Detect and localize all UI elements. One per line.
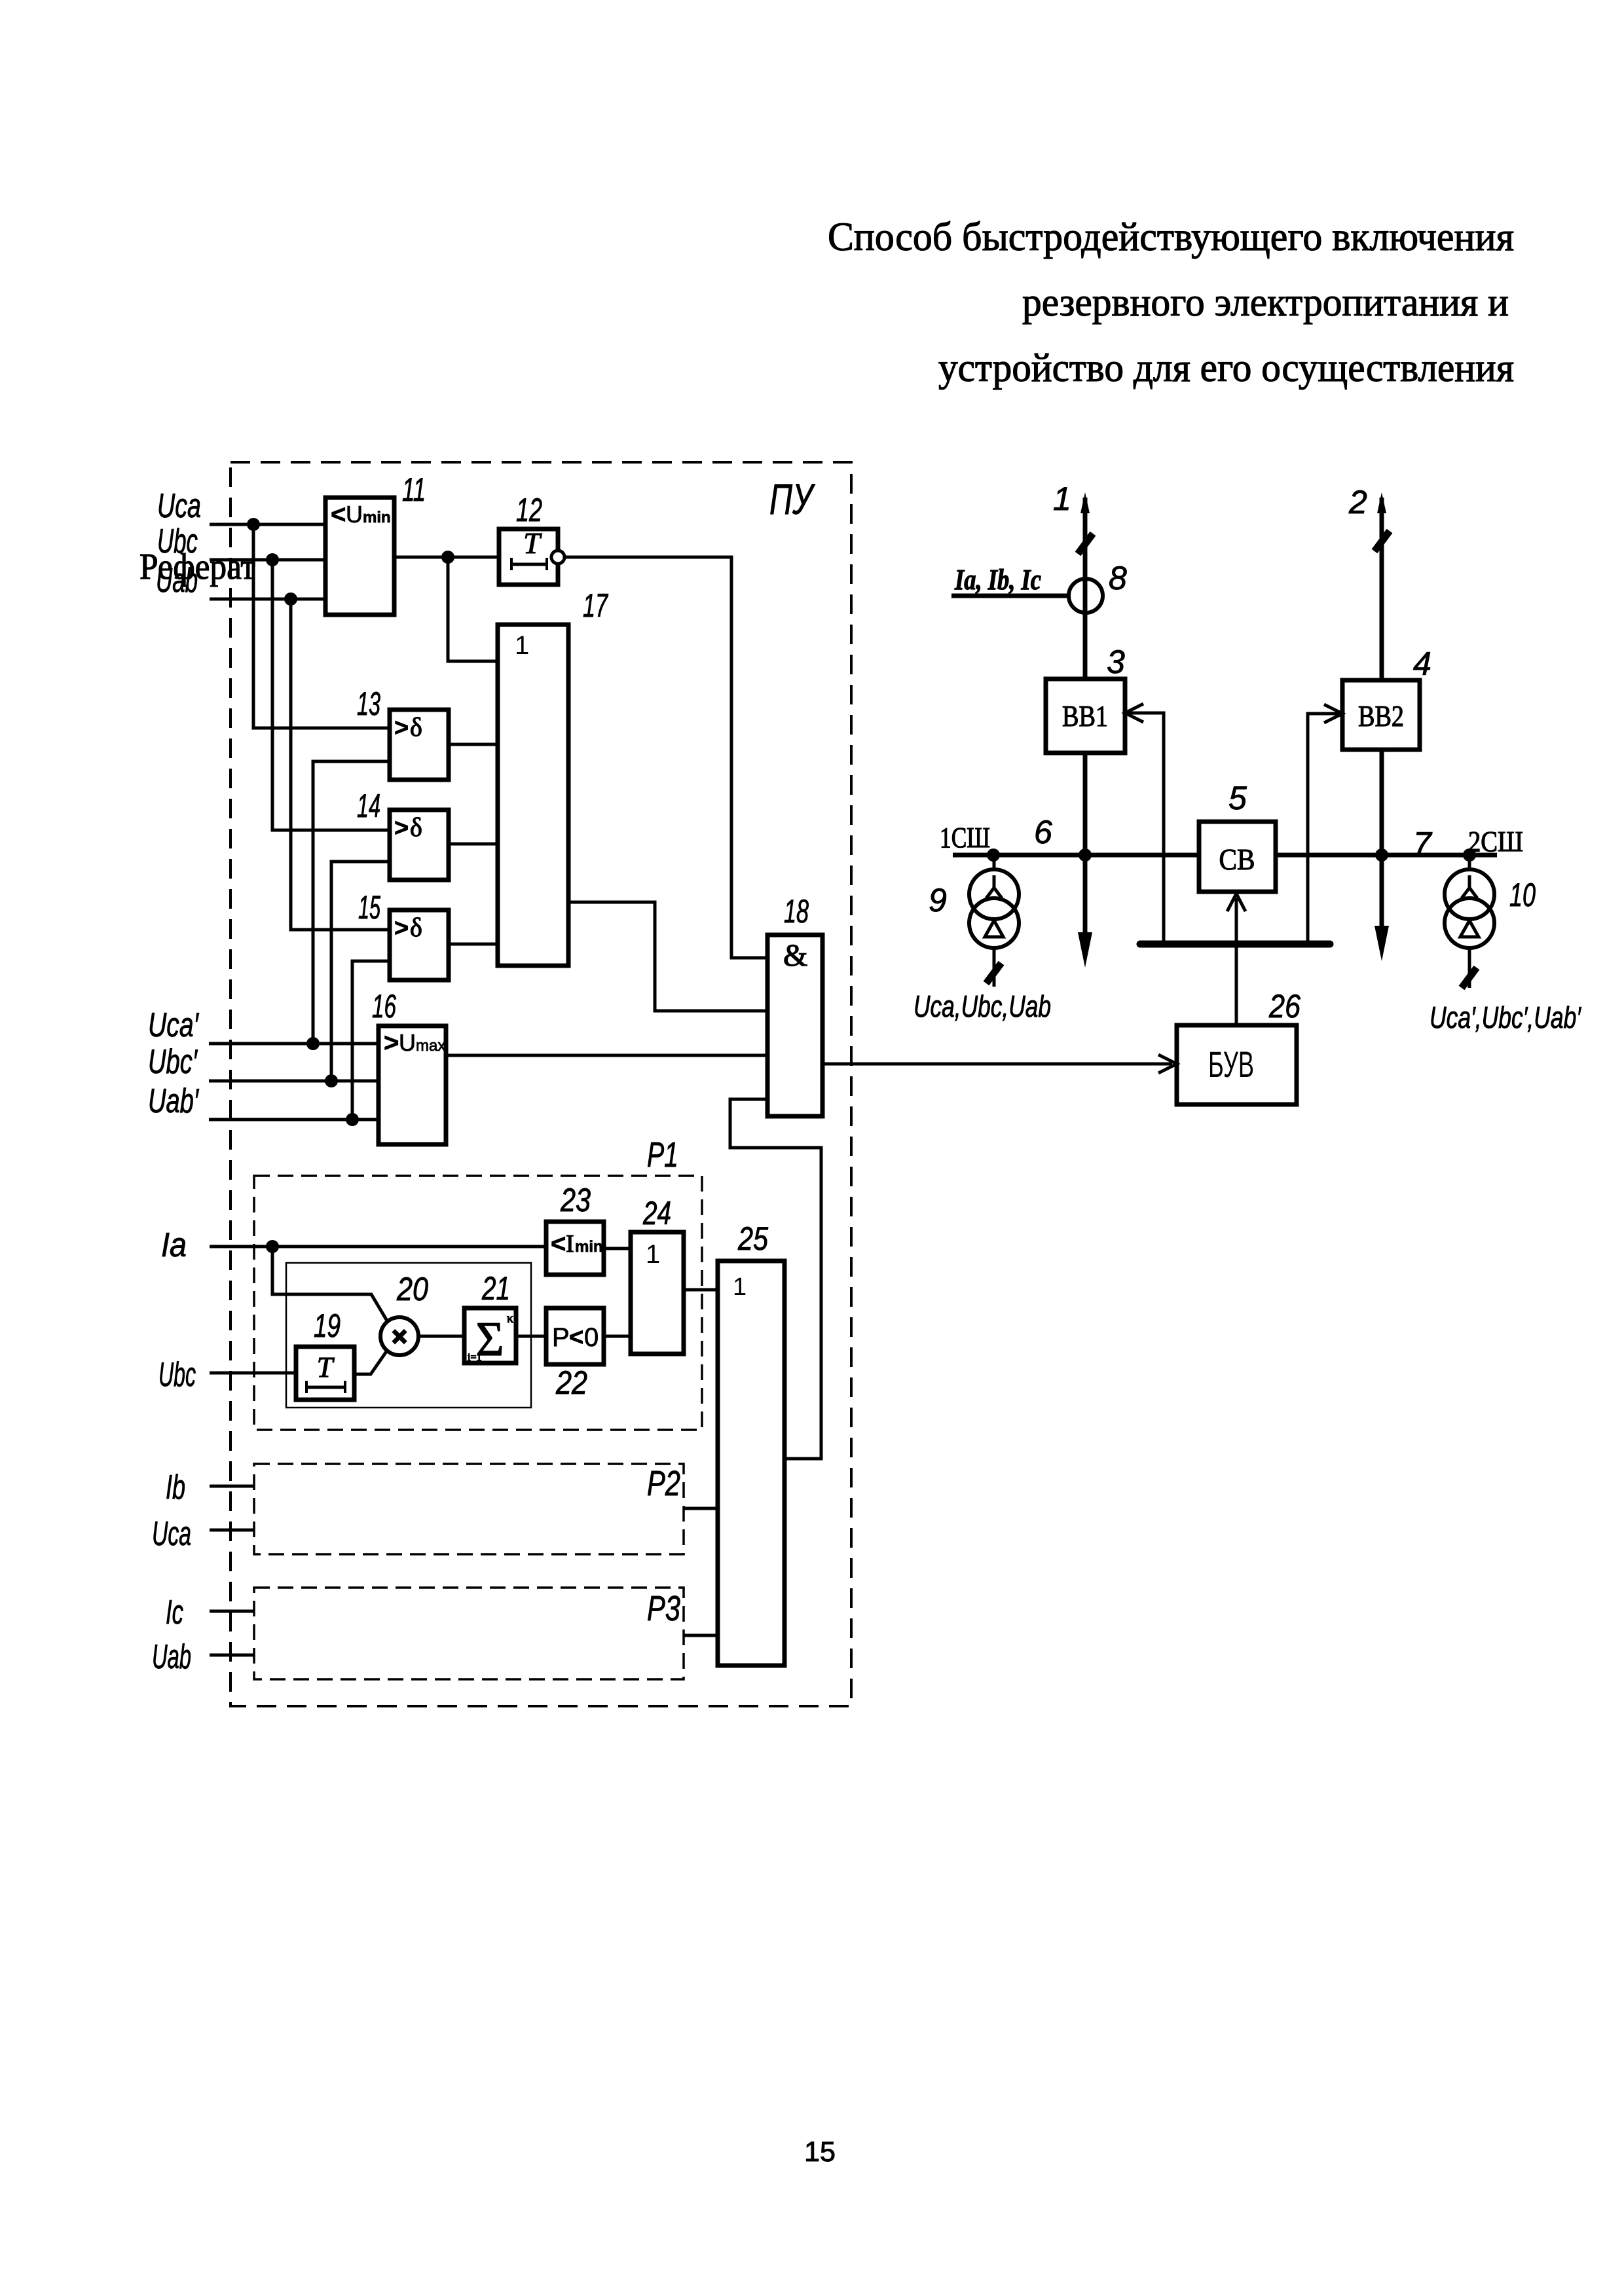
svg-text:26: 26 — [1268, 988, 1301, 1025]
dashed box P3 (phase C power relay) — [254, 1588, 684, 1679]
svg-text:21: 21 — [481, 1270, 510, 1307]
bus 1СШ-2СШ — [953, 853, 1497, 858]
block 23 undercurrent detector <Imin — [546, 1222, 604, 1275]
svg-text:<: < — [569, 1324, 583, 1351]
svg-text:5: 5 — [1228, 780, 1247, 816]
svg-text:I: I — [566, 1230, 574, 1258]
current transformer 8 — [1069, 579, 1103, 613]
wire Ia branch to multiplier 20 — [272, 1247, 388, 1322]
node on Uab' line — [346, 1113, 359, 1126]
svg-text:2: 2 — [1348, 484, 1367, 520]
wire Uca input to block 11 — [210, 523, 325, 526]
svg-text:<: < — [331, 500, 346, 529]
wire Uab' input to block 16 — [209, 1118, 378, 1121]
wire Ib input stub — [210, 1485, 254, 1488]
wire Uca branch down to block 13 — [253, 524, 390, 728]
svg-text:×: × — [392, 1322, 407, 1351]
svg-text:4: 4 — [1413, 646, 1431, 682]
svg-text:P2: P2 — [647, 1464, 680, 1503]
wire Uab input stub to P3 — [210, 1654, 254, 1657]
svg-text:Uca′: Uca′ — [148, 1006, 200, 1044]
tick below transformer 10 — [1462, 968, 1477, 988]
wire block 12 output to block 18 first input — [564, 557, 767, 958]
breaker BB2 block 4 — [1342, 680, 1420, 750]
wire block 22 to block 24 — [604, 1335, 631, 1338]
block 19 timer T — [296, 1347, 354, 1400]
svg-text:2СШ: 2СШ — [1468, 826, 1523, 858]
transformer 9 stem to bus — [993, 855, 996, 870]
svg-text:Ia, Ib, Ic: Ia, Ib, Ic — [954, 564, 1041, 596]
node bus/feeder1 — [1079, 848, 1092, 862]
svg-text:Ubc: Ubc — [158, 1356, 196, 1394]
arrow into БУВ — [1158, 1055, 1177, 1073]
transformer 9 star symbol — [986, 888, 1002, 898]
svg-text:U: U — [399, 1029, 416, 1056]
transformer 10 lower winding — [1445, 898, 1494, 948]
arrow into BB2 — [1324, 704, 1342, 723]
block 12 timer T — [499, 529, 558, 585]
svg-text:Uab′: Uab′ — [148, 1082, 200, 1120]
svg-text:δ: δ — [410, 812, 422, 842]
wire multiplier 20 to block 21 — [418, 1335, 464, 1338]
arrow into BB1 — [1125, 704, 1143, 722]
block 21 summator — [464, 1308, 516, 1363]
svg-text:Ic: Ic — [166, 1594, 183, 1631]
svg-text:25: 25 — [737, 1220, 768, 1257]
svg-text:Ib: Ib — [166, 1468, 185, 1506]
transformer 10 delta symbol — [1460, 920, 1479, 937]
svg-text:Uab: Uab — [152, 1638, 191, 1676]
svg-text:1СШ: 1СШ — [940, 822, 990, 854]
wire block 23 to block 24 — [604, 1247, 631, 1250]
svg-text:ПУ: ПУ — [769, 475, 815, 523]
node bus/feeder2 — [1375, 848, 1388, 862]
wire block 13 output to block 17 — [449, 743, 498, 746]
svg-text:ВВ2: ВВ2 — [1358, 699, 1404, 733]
transformer 9 upper winding — [969, 869, 1019, 919]
svg-text:Ia: Ia — [161, 1226, 187, 1264]
svg-text:max: max — [416, 1037, 445, 1055]
svg-text:10: 10 — [1509, 877, 1536, 913]
svg-text:Uca: Uca — [152, 1515, 191, 1553]
wire Ia,Ib,Ic to CT 8 — [951, 594, 1069, 598]
wire block 25 output up to block 18 fourth input — [730, 1099, 821, 1459]
bus coupler CB block 5 — [1199, 822, 1276, 892]
svg-text:min: min — [575, 1238, 603, 1256]
svg-text:Uca: Uca — [157, 487, 201, 525]
svg-text:16: 16 — [372, 988, 396, 1025]
transformer 10 upper winding — [1445, 869, 1494, 919]
feeder 2 bottom arrow — [1375, 926, 1389, 961]
svg-text:Uab: Uab — [156, 562, 198, 600]
wire Ubc branch down to block 14 — [272, 560, 390, 830]
svg-text:Uca,Ubc,Uab: Uca,Ubc,Uab — [913, 989, 1051, 1023]
svg-text:15: 15 — [804, 2136, 836, 2168]
svg-text:резервного электропитания и: резервного электропитания и — [1022, 281, 1509, 325]
block 11 undervoltage detector <Umin — [325, 498, 394, 615]
feeder line 2 — [1380, 498, 1384, 930]
transformer 10 stem to bus — [1468, 855, 1471, 870]
node on Ubc' line — [325, 1074, 338, 1087]
node bus/transformer 10 — [1463, 848, 1476, 862]
transformer 9 delta symbol — [985, 920, 1003, 937]
wire block 19 output to multiplier 20 — [354, 1351, 387, 1374]
svg-text:3: 3 — [1107, 644, 1125, 680]
feeder 1 top arrow — [1080, 492, 1090, 513]
wire P2 output to block 25 — [684, 1507, 718, 1510]
svg-text:БУВ: БУВ — [1208, 1044, 1254, 1085]
wire block 11 output to block 12 — [394, 556, 499, 559]
breaker BB1 block 3 — [1046, 679, 1125, 753]
svg-text:14: 14 — [357, 788, 380, 824]
node on Ubc line — [266, 553, 279, 566]
block 24 OR gate 1 — [631, 1232, 684, 1354]
wire block 21 to block 22 — [516, 1335, 546, 1338]
node on Uca line — [247, 518, 260, 531]
svg-text:κ: κ — [507, 1311, 513, 1326]
svg-text:U: U — [346, 501, 363, 528]
svg-text:Ubc′: Ubc′ — [148, 1043, 198, 1081]
svg-text:P: P — [552, 1323, 570, 1352]
wire Uab input to block 11 — [210, 598, 325, 601]
arrow into CB — [1227, 894, 1246, 911]
control wire BUV to CB — [1235, 898, 1238, 1025]
svg-text:22: 22 — [555, 1364, 587, 1401]
svg-text:8: 8 — [1109, 560, 1127, 596]
block 26 БУВ control unit — [1177, 1025, 1297, 1104]
wire Uab branch down to block 15 — [291, 599, 390, 930]
feeder line 1 — [1083, 498, 1088, 936]
svg-text:1: 1 — [515, 631, 529, 660]
svg-text:24: 24 — [642, 1195, 671, 1231]
wire Ubc input to block 19 — [210, 1372, 296, 1375]
svg-text:>: > — [384, 1029, 399, 1057]
svg-text:0: 0 — [584, 1323, 599, 1352]
svg-text:P3: P3 — [647, 1589, 680, 1628]
svg-text:δ: δ — [410, 913, 422, 942]
thin inner box (multiplier unit 19-21) — [286, 1263, 531, 1408]
block 14 phase comparator >d — [390, 810, 449, 880]
svg-text:T: T — [523, 526, 542, 560]
block 17 OR gate 1 — [498, 625, 568, 966]
svg-text:9: 9 — [929, 882, 947, 919]
node on Uab line — [284, 592, 297, 606]
riser to BB2 — [1308, 714, 1339, 944]
svg-text:>: > — [394, 915, 409, 942]
wire block 15 output to block 17 — [449, 943, 498, 946]
dashed box ПУ (control unit enclosure) — [231, 462, 851, 1706]
svg-text:СВ: СВ — [1219, 843, 1255, 876]
svg-text:20: 20 — [396, 1271, 428, 1307]
feeder 1 bottom arrow — [1078, 932, 1092, 968]
transformer 9 lower winding — [969, 898, 1019, 948]
wire Uca' up to block 13 lower input — [313, 761, 390, 1044]
svg-text:<: < — [551, 1230, 566, 1258]
svg-text:>: > — [394, 714, 409, 742]
svg-text:P1: P1 — [647, 1135, 678, 1175]
block 13 phase comparator >d — [390, 710, 449, 780]
svg-text:1: 1 — [733, 1273, 747, 1301]
svg-text:7: 7 — [1413, 826, 1433, 862]
multiplier 20 — [380, 1317, 418, 1355]
riser to BB1 — [1128, 713, 1164, 944]
collector bar — [1140, 941, 1330, 948]
svg-text:i=1: i=1 — [468, 1352, 481, 1363]
svg-text:15: 15 — [358, 889, 380, 926]
breaker tick on feeder 1 — [1078, 534, 1093, 554]
node on Ia line — [266, 1240, 279, 1253]
dashed box P1 (phase A power relay) — [254, 1176, 702, 1430]
svg-text:1: 1 — [646, 1240, 660, 1269]
breaker tick on feeder 2 — [1375, 531, 1390, 551]
svg-text:устройство для его осуществлен: устройство для его осуществления — [938, 346, 1514, 390]
transformer 10 star symbol — [1462, 888, 1477, 898]
wire block 18 output to БУВ — [822, 1063, 1172, 1066]
svg-text:>: > — [394, 814, 409, 842]
node on Uca' line — [306, 1037, 320, 1050]
wire block 24 output to block 25 — [684, 1288, 718, 1292]
tick below transformer 9 — [986, 963, 1001, 983]
inverting circle on block 12 output — [551, 551, 564, 564]
svg-text:&: & — [783, 938, 807, 973]
wire P3 output to block 25 — [684, 1634, 718, 1637]
svg-text:19: 19 — [314, 1307, 341, 1344]
svg-text:17: 17 — [583, 587, 608, 624]
wire Ubc input to block 11 — [210, 558, 325, 562]
wire Ia input to block 23 — [210, 1245, 546, 1248]
transformer 10 lead down — [1468, 947, 1471, 988]
node on block 11 output — [441, 551, 454, 564]
feeder 2 top arrow — [1377, 492, 1386, 513]
wire block 16 output to block 18 third input — [446, 1054, 767, 1057]
wire Uca input stub to P2 — [210, 1529, 254, 1532]
svg-text:23: 23 — [560, 1182, 591, 1218]
transformer 9 lead down — [993, 947, 996, 987]
svg-text:T: T — [317, 1351, 335, 1383]
svg-text:12: 12 — [516, 492, 542, 528]
wire Uca' input to block 16 — [209, 1042, 378, 1046]
wire branch down to block 17 first input — [448, 557, 498, 661]
wire Uab' up to block 15 lower input — [352, 961, 390, 1120]
wire block 14 output to block 17 — [449, 843, 498, 846]
wire Ubc' input to block 16 — [209, 1080, 378, 1083]
svg-text:Uca′,Ubc′,Uab′: Uca′,Ubc′,Uab′ — [1430, 1000, 1581, 1034]
wire Ic input stub — [210, 1610, 254, 1613]
svg-text:13: 13 — [357, 685, 380, 722]
svg-text:11: 11 — [402, 471, 426, 508]
svg-text:1: 1 — [1053, 481, 1071, 517]
svg-text:min: min — [363, 509, 391, 526]
dashed box P2 (phase B power relay) — [254, 1464, 684, 1554]
block 15 phase comparator >d — [390, 910, 449, 980]
title text — [828, 215, 1514, 390]
svg-text:ВВ1: ВВ1 — [1062, 699, 1108, 733]
svg-text:Способ быстродействующего вклю: Способ быстродействующего включения — [828, 215, 1514, 259]
block 16 overvoltage detector >Umax — [378, 1026, 446, 1144]
svg-text:Ubc: Ubc — [157, 522, 198, 560]
svg-text:6: 6 — [1034, 814, 1052, 850]
svg-text:δ: δ — [410, 712, 422, 742]
wire block 17 output to block 18 second input — [568, 902, 767, 1011]
wire Ubc' up to block 14 lower input — [331, 862, 390, 1081]
block 25 OR gate 1 — [718, 1261, 784, 1666]
block 22 negative power detector P<0 — [546, 1308, 604, 1364]
node bus/transformer 9 — [987, 848, 1000, 862]
block 18 AND gate & — [767, 935, 822, 1116]
svg-text:18: 18 — [784, 893, 809, 930]
